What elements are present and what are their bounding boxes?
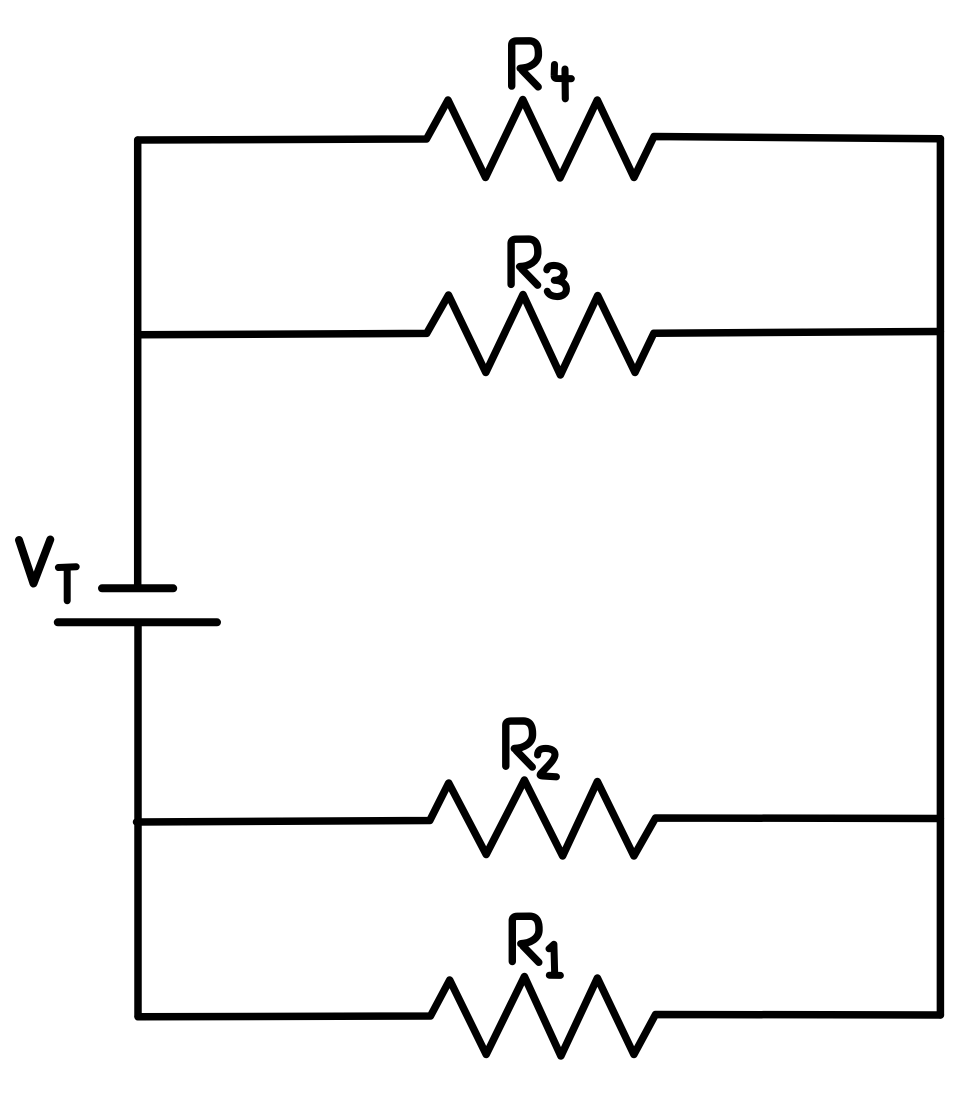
label R2	[506, 721, 557, 777]
resistor R1 (bottom branch with zigzag)	[138, 977, 940, 1057]
label VT	[19, 540, 76, 601]
label R4	[512, 41, 572, 99]
label R1	[512, 916, 560, 975]
label R3	[511, 239, 566, 296]
resistor R2 (third branch with zigzag)	[137, 780, 941, 856]
wire: left vertical lower (battery - plate down to bottom node)	[134, 623, 142, 1017]
battery VT top plate (+)	[102, 584, 173, 592]
battery VT bottom plate (-)	[58, 618, 217, 626]
resistor R4 (top branch with zigzag)	[138, 100, 941, 179]
wire: right vertical bus	[937, 139, 945, 1015]
resistor R3 (second branch with zigzag)	[138, 295, 941, 376]
wire: left vertical upper (top node down to battery + plate)	[134, 140, 142, 586]
